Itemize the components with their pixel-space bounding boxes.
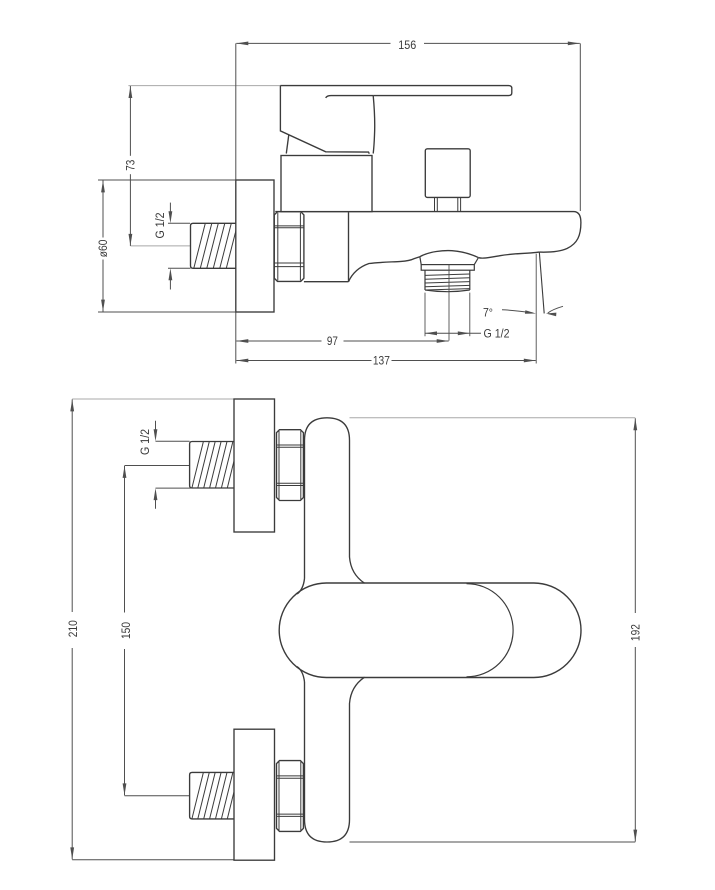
svg-text:192: 192 [628, 624, 642, 641]
svg-text:156: 156 [398, 38, 416, 52]
svg-text:7°: 7° [483, 305, 493, 319]
svg-text:150: 150 [119, 622, 133, 639]
svg-text:G 1/2: G 1/2 [153, 212, 167, 238]
svg-text:73: 73 [124, 160, 138, 171]
svg-text:97: 97 [327, 334, 338, 348]
svg-text:ø60: ø60 [96, 240, 110, 258]
svg-text:137: 137 [373, 354, 390, 368]
svg-text:210: 210 [66, 620, 80, 637]
svg-text:G 1/2: G 1/2 [484, 326, 510, 340]
svg-text:G 1/2: G 1/2 [138, 429, 152, 455]
